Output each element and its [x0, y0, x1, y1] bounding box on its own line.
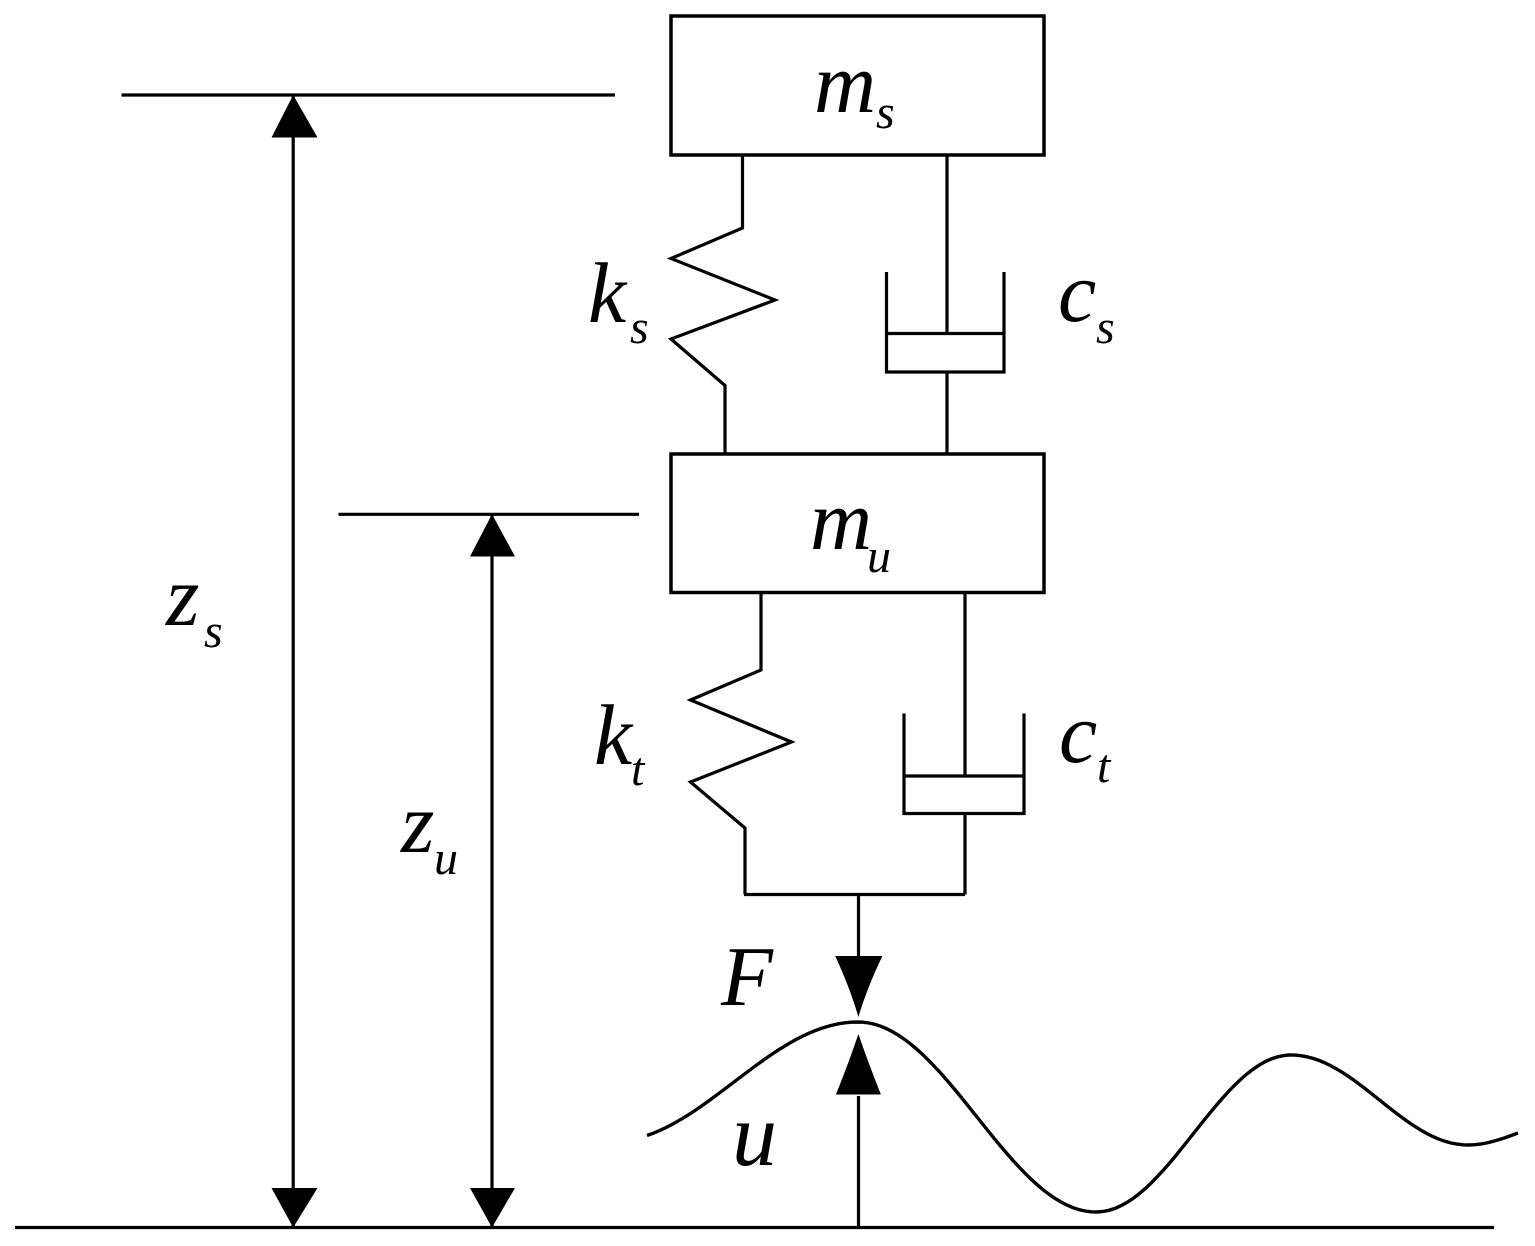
force F arrowhead: [835, 956, 882, 1017]
svg-text:t: t: [631, 743, 646, 796]
ground line: [15, 1226, 1494, 1229]
dimension arrow z_s stem: [292, 95, 295, 1228]
z_u top arrowhead: [470, 514, 515, 556]
z_u bottom arrowhead: [470, 1188, 515, 1228]
mass block m_s: [671, 16, 1044, 155]
svg-text:m: m: [810, 472, 872, 568]
junction bar: [744, 893, 965, 896]
road profile curve: [647, 1022, 1518, 1212]
road input u stem: [857, 1096, 860, 1228]
dimension arrow z_u stem: [490, 514, 493, 1227]
svg-text:t: t: [1097, 740, 1112, 793]
spring k_t: [691, 593, 792, 895]
z_s bottom arrowhead: [272, 1188, 318, 1228]
mass block m_u: [671, 454, 1044, 593]
damper C_t rod: [963, 593, 966, 777]
damper C_s piston plate: [887, 332, 1005, 335]
svg-text:z: z: [165, 548, 199, 644]
damper C_t cup: [904, 714, 1024, 814]
svg-text:s: s: [1096, 301, 1115, 354]
svg-text:u: u: [434, 832, 458, 885]
svg-text:c: c: [1059, 685, 1097, 781]
svg-text:c: c: [1058, 244, 1096, 340]
reference line z_u level: [339, 513, 640, 516]
damper C_s lower rod: [945, 372, 948, 454]
svg-text:s: s: [204, 605, 223, 658]
force F stem: [857, 895, 860, 961]
svg-text:m: m: [814, 35, 876, 131]
damper C_s rod: [945, 155, 948, 334]
svg-text:u: u: [867, 530, 891, 583]
svg-text:s: s: [876, 86, 895, 139]
damper C_t lower rod: [963, 814, 966, 895]
damper C_t piston plate: [904, 774, 1024, 777]
svg-text:F: F: [720, 930, 774, 1024]
damper C_s cup: [887, 272, 1005, 372]
spring k_s: [671, 155, 775, 454]
svg-text:s: s: [630, 301, 649, 354]
svg-text:k: k: [588, 245, 628, 341]
svg-text:z: z: [400, 775, 434, 871]
reference line z_s level: [122, 93, 616, 96]
svg-text:k: k: [594, 687, 634, 783]
z_s top arrowhead: [272, 95, 318, 138]
road input u arrowhead: [836, 1034, 881, 1095]
svg-text:u: u: [732, 1086, 777, 1185]
